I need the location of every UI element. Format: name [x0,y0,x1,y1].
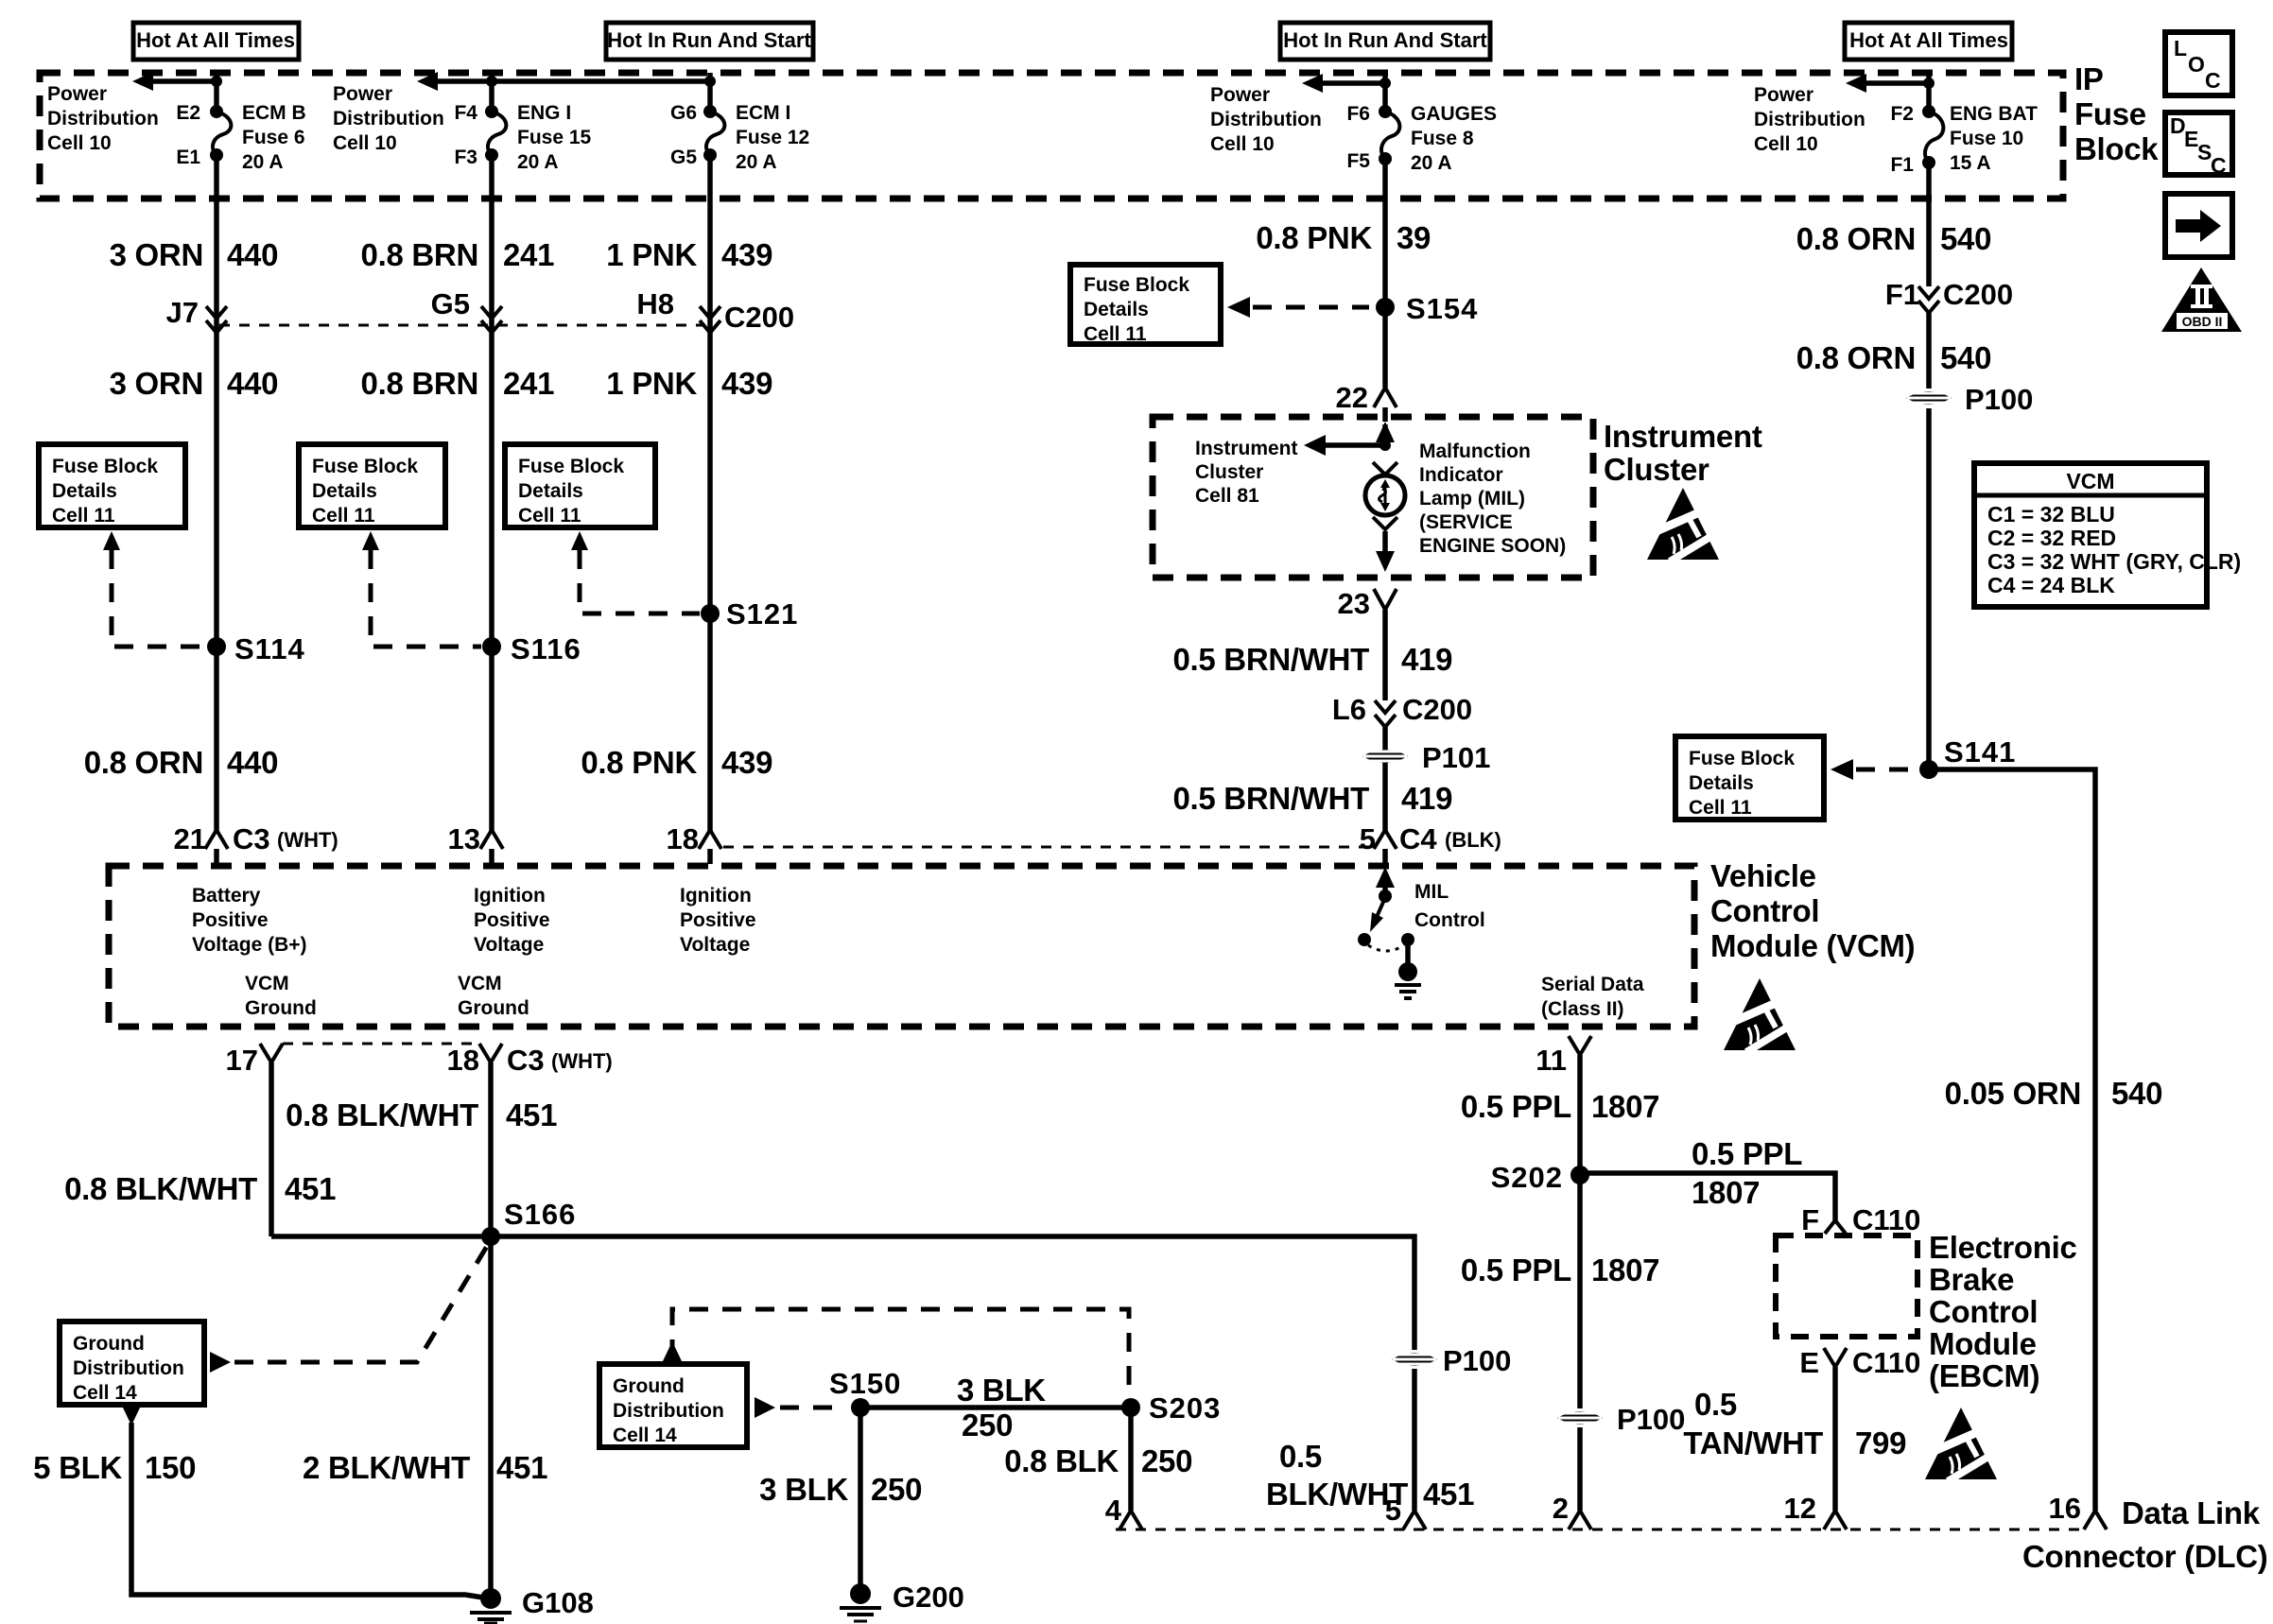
label 0.8 BLK/WHT 451 (wire 18) [286,1097,557,1132]
grommet P101 [1362,741,1490,774]
svg-text:(SERVICE: (SERVICE [1419,511,1513,533]
connector F1 C200 (wire 5) [1885,278,2013,313]
label 0.5 PPL 1807 lower [1461,1253,1659,1287]
svg-text:Indicator: Indicator [1419,464,1503,486]
svg-text:VCM: VCM [458,973,502,994]
svg-text:18: 18 [667,822,699,855]
svg-text:20 A: 20 A [1411,152,1452,174]
svg-text:18: 18 [447,1044,479,1077]
svg-text:ENG BAT: ENG BAT [1950,103,2038,125]
svg-text:15 A: 15 A [1950,152,1991,174]
node S116 [482,632,581,665]
svg-text:0.8 PNK: 0.8 PNK [581,745,697,780]
svg-text:540: 540 [2111,1076,2162,1111]
svg-text:39: 39 [1397,220,1431,255]
pin 13 [448,822,503,855]
label 0.8 ORN 440 mid [84,745,278,780]
svg-text:Ignition: Ignition [680,885,752,907]
svg-text:20 A: 20 A [242,151,284,173]
fuse ENG BAT Fuse 10 symbol [1925,112,1943,162]
reference arrow up from ground box middle [663,1341,682,1361]
svg-text:0.5 PPL: 0.5 PPL [1461,1253,1571,1287]
svg-text:20 A: 20 A [517,151,559,173]
wire: fuse1 top stub [214,73,219,113]
svg-text:2: 2 [1553,1492,1569,1525]
svg-text:Fuse 15: Fuse 15 [517,127,592,148]
reference arrow into box D [1227,297,1250,318]
wire EBCM pin E to pin 12 [1832,1367,1838,1511]
wire W5 segment [1926,163,1932,286]
instrument cluster dashed box [1153,417,1593,578]
svg-text:C4: C4 [1399,822,1437,855]
label 0.8 ORN 540 row2 [1796,340,1991,375]
svg-text:C200: C200 [1402,693,1472,726]
svg-text:P101: P101 [1422,741,1490,774]
svg-text:TAN/WHT: TAN/WHT [1683,1425,1823,1460]
svg-text:S166: S166 [504,1198,576,1231]
svg-text:0.05 ORN: 0.05 ORN [1945,1076,2081,1111]
label 3 ORN 440 row1 [110,237,279,272]
grommet P100 (wire 5) [1906,383,2033,416]
wire stub into VCM [1382,849,1388,865]
svg-text:Distribution: Distribution [73,1357,184,1379]
pin 22 instrument cluster [1336,381,1397,414]
svg-text:VCM: VCM [245,973,289,994]
svg-text:S121: S121 [726,597,798,631]
svg-text:439: 439 [721,237,772,272]
wire S150 to G200 [858,1408,863,1586]
svg-text:Ground: Ground [245,997,317,1019]
svg-text:3 BLK: 3 BLK [957,1373,1046,1408]
svg-text:S114: S114 [234,632,305,665]
svg-text:451: 451 [506,1097,557,1132]
fuse block details box B [299,444,445,527]
svg-text:0.5: 0.5 [1694,1387,1737,1422]
svg-text:C3 = 32 WHT (GRY, CLR): C3 = 32 WHT (GRY, CLR) [1987,549,2241,574]
pin 12 DLC [1784,1492,1847,1529]
svg-text:(BLK): (BLK) [1445,828,1501,852]
reference arrow down from ground box left [122,1406,141,1425]
label 2 BLK/WHT 451 [303,1450,547,1485]
svg-text:Module: Module [1929,1326,2037,1361]
fuse F_ECMB pins E2/E1 [176,102,223,168]
wire from S141 to right column [1929,769,2095,1511]
instrument cluster inner reference text [1195,438,1298,507]
dashed reference to S141 [1856,768,1915,772]
svg-text:Details: Details [1689,772,1754,794]
svg-text:G5: G5 [670,147,697,168]
svg-text:S141: S141 [1944,735,2016,769]
svg-text:Connector (DLC): Connector (DLC) [2022,1539,2267,1574]
svg-text:3 ORN: 3 ORN [110,366,203,401]
svg-text:Cell 10: Cell 10 [1754,133,1818,155]
svg-text:Distribution: Distribution [333,108,444,130]
wire W4 below instrument cluster [1382,610,1388,700]
power distribution text 5 [1754,84,1865,155]
pin 16 DLC [2049,1492,2107,1529]
svg-text:250: 250 [962,1408,1013,1443]
reference arrow up to box A [103,531,120,550]
wire serial data to pin 2 [1577,1427,1583,1511]
svg-text:451: 451 [496,1450,547,1485]
label 0.8 PNK 39 [1256,220,1431,255]
svg-text:P100: P100 [1443,1344,1511,1377]
svg-text:(WHT): (WHT) [277,828,338,852]
svg-text:VCM: VCM [2066,469,2114,493]
svg-text:Hot In Run And Start: Hot In Run And Start [1283,28,1487,52]
svg-text:F1: F1 [1885,278,1919,311]
svg-text:3 ORN: 3 ORN [110,237,203,272]
svg-text:Fuse Block: Fuse Block [518,456,624,477]
ground distribution box middle [599,1364,747,1447]
VCM dashed box [109,866,1694,1027]
svg-text:E2: E2 [176,102,200,124]
fuse GAUGES labels [1411,103,1497,174]
svg-text:Fuse Block: Fuse Block [52,456,158,477]
svg-text:440: 440 [227,366,278,401]
svg-text:451: 451 [285,1171,336,1206]
svg-text:Ground: Ground [458,997,529,1019]
svg-text:C110: C110 [1852,1203,1920,1236]
svg-text:ECM I: ECM I [736,102,790,124]
node S150 [829,1367,901,1417]
label 0.8 BLK 250 [1004,1443,1192,1478]
svg-text:Voltage: Voltage [474,934,544,956]
svg-text:C: C [2205,68,2221,93]
svg-text:(Class II): (Class II) [1541,998,1624,1020]
wire W3 upper segment [707,155,713,832]
svg-text:C110: C110 [1852,1346,1920,1379]
connector C200 row: G5 [431,287,502,333]
svg-text:C200: C200 [724,301,794,334]
dashed reference to S114 [112,550,206,647]
fuse block details box E [1675,736,1824,820]
svg-text:1 PNK: 1 PNK [606,366,697,401]
connector L6 C200 [1332,693,1472,727]
connector C200 dashed line [219,324,705,327]
svg-text:241: 241 [503,366,554,401]
svg-text:Cluster: Cluster [1604,452,1709,487]
wire W2 upper segment [489,155,495,832]
svg-text:C: C [2211,153,2227,178]
svg-text:Cell 11: Cell 11 [52,505,115,527]
svg-text:Distribution: Distribution [1210,109,1322,130]
svg-text:Ground: Ground [613,1375,685,1397]
reference arrow up to box B [362,531,379,550]
svg-text:Cell 14: Cell 14 [73,1382,137,1404]
OBD II triangle symbol [2161,268,2242,332]
pin 18 C3 (WHT) VCM [447,1044,613,1077]
grommet P100 (serial data wire) [1557,1403,1685,1436]
svg-text:MIL: MIL [1414,881,1449,903]
power distribution text 4 [1210,84,1322,155]
svg-text:F: F [1801,1203,1819,1236]
svg-text:Details: Details [52,480,117,502]
svg-text:F1: F1 [1890,154,1914,176]
dashed reference to S121 [580,550,700,613]
wire S203 to pin 4 [1128,1408,1134,1511]
fuse GAUGES Fuse 8 symbol [1381,112,1399,158]
svg-text:0.5 BRN/WHT: 0.5 BRN/WHT [1172,642,1369,677]
node S203 [1121,1391,1221,1425]
svg-text:C1 = 32 BLU: C1 = 32 BLU [1987,502,2115,527]
DESC legend box [2165,112,2232,178]
MIL lamp bottom terminal chevron [1373,517,1397,529]
forward arrow legend box [2165,194,2232,257]
svg-text:20 A: 20 A [736,151,777,173]
label 0.5 BRN/WHT 419 upper [1172,642,1452,677]
label 5 BLK 150 [33,1450,196,1485]
label 0.8 BRN 241 row1 [361,237,555,272]
svg-text:Instrument: Instrument [1604,419,1762,454]
pin 5 DLC [1385,1494,1426,1529]
wire: fuse4 top stub [1382,73,1388,113]
node S202 [1491,1161,1589,1194]
svg-text:Cell 10: Cell 10 [1210,133,1275,155]
svg-text:S202: S202 [1491,1161,1563,1194]
fuse block details box C [505,444,655,527]
svg-text:Voltage: Voltage [680,934,750,956]
svg-text:Battery: Battery [192,885,261,907]
svg-text:Fuse Block: Fuse Block [312,456,418,477]
pin 5 C4 (BLK) [1360,822,1501,855]
power distribution text 1 [47,83,159,154]
power distribution arrow 5 [1846,74,1935,93]
label 1 PNK 439 row1 [606,237,772,272]
svg-text:Hot In Run And Start: Hot In Run And Start [607,28,811,52]
MIL lamp top terminal chevron [1373,462,1397,475]
ground G200 [840,1581,964,1621]
svg-text:G200: G200 [893,1581,964,1614]
wire 17 down to S166 line [269,1063,274,1236]
wire: fuse5 top stub [1926,73,1932,113]
pin 21 C3 (WHT) [174,822,338,855]
dashed reference to S166 [234,1243,489,1362]
svg-text:E1: E1 [176,147,200,168]
svg-text:Block: Block [2074,131,2159,166]
label 0.8 ORN 540 row1 [1796,221,1991,256]
reference arrow up to box C [571,531,588,550]
pin 11 VCM serial data [1536,1036,1591,1077]
svg-text:1807: 1807 [1692,1175,1760,1210]
svg-text:(WHT): (WHT) [551,1049,613,1073]
Instrument Cluster title [1604,419,1762,487]
svg-text:ECM B: ECM B [242,102,306,124]
dashed reference to S116 [371,550,481,647]
svg-text:Fuse 12: Fuse 12 [736,127,809,148]
Vehicle Control Module title [1710,858,1915,963]
svg-text:250: 250 [1141,1443,1192,1478]
wire serial data pin 11 to S202 [1577,1055,1583,1408]
svg-text:540: 540 [1940,340,1991,375]
wire 451 to pin 5 [1412,1369,1417,1511]
IP fuse block dashed box [40,73,2063,199]
label 0.8 PNK 439 mid [581,745,772,780]
svg-text:16: 16 [2049,1492,2081,1525]
reference arrow from ground box left [210,1352,231,1373]
svg-text:Cell 10: Cell 10 [47,132,112,154]
svg-text:540: 540 [1940,221,1991,256]
svg-text:Lamp (MIL): Lamp (MIL) [1419,488,1525,510]
svg-text:F5: F5 [1346,150,1370,172]
svg-text:Power: Power [1754,84,1813,106]
svg-text:Fuse 10: Fuse 10 [1950,128,2023,149]
malfunction indicator lamp text [1419,441,1566,557]
power distribution arrow 2 (shared wires 2-3) [417,72,716,91]
node S154 [1376,292,1478,325]
label 0.5 PPL 1807 upper [1461,1089,1659,1124]
ESD symbol VCM [1720,978,1799,1052]
svg-text:Details: Details [518,480,583,502]
pin 17 VCM [226,1044,283,1077]
connector C200 row: H8 [636,287,720,333]
label 1 PNK 439 row2 [606,366,772,401]
fuse F_GAUGES pins F6/F5 [1346,103,1392,172]
svg-text:ENG I: ENG I [517,102,571,124]
svg-text:L: L [2174,36,2187,60]
wire W5 segment 2 [1926,313,1932,389]
svg-text:Cell 11: Cell 11 [312,505,375,527]
fuse block details box D [1070,265,1221,345]
svg-text:Power: Power [333,83,392,105]
svg-text:F6: F6 [1346,103,1370,125]
svg-text:S150: S150 [829,1367,901,1400]
svg-text:Distribution: Distribution [47,108,159,130]
svg-text:3 BLK: 3 BLK [759,1472,848,1507]
svg-text:Voltage (B+): Voltage (B+) [192,934,307,956]
svg-text:C3: C3 [507,1044,545,1077]
svg-text:22: 22 [1336,381,1368,414]
fuse F_ENGBAT pins F2/F1 [1890,103,1935,176]
pin 23 instrument cluster [1338,587,1397,620]
svg-text:Fuse: Fuse [2074,96,2146,131]
label 3 BLK 250 (horizontal wire) [957,1373,1046,1443]
fuse block details box A [39,444,185,527]
svg-text:Positive: Positive [680,909,756,931]
svg-text:F2: F2 [1890,103,1914,125]
svg-text:Control: Control [1710,893,1819,928]
power distribution arrow 4 [1302,74,1391,93]
svg-text:Cluster: Cluster [1195,461,1263,483]
svg-text:0.5 PPL: 0.5 PPL [1692,1136,1802,1171]
header box: Hot In Run And Start (left) [606,23,813,60]
svg-text:Instrument: Instrument [1195,438,1298,459]
EBCM dashed box [1776,1235,1917,1337]
VCM serial data text [1541,974,1644,1020]
MIL control arrow up [1376,867,1395,903]
IP Fuse Block label [2074,61,2159,166]
svg-text:Malfunction: Malfunction [1419,441,1531,462]
svg-text:0.8 BLK/WHT: 0.8 BLK/WHT [286,1097,478,1132]
svg-text:0.8 BRN: 0.8 BRN [361,237,478,272]
label 0.5 PPL 1807 branch [1692,1136,1802,1210]
svg-text:21: 21 [174,822,206,855]
label 3 ORN 440 row2 [110,366,279,401]
svg-text:13: 13 [448,822,480,855]
MIL lamp feed arrow up [1376,422,1395,445]
svg-text:Power: Power [47,83,107,105]
ESD symbol EBCM [1921,1408,2001,1481]
svg-text:5: 5 [1360,822,1376,855]
dashed reference to S150 [780,1406,846,1410]
svg-text:439: 439 [721,745,772,780]
wire 18 down to G108 [488,1063,494,1594]
svg-text:439: 439 [721,366,772,401]
svg-text:0.8 BLK/WHT: 0.8 BLK/WHT [64,1171,257,1206]
arrow to instrument cluster reference [1304,435,1391,456]
MIL lamp output arrow down [1376,531,1395,572]
svg-text:G5: G5 [431,287,470,320]
svg-text:G108: G108 [522,1586,594,1619]
svg-text:Hot At All Times: Hot At All Times [1849,28,2008,52]
svg-text:0.8 ORN: 0.8 ORN [84,745,203,780]
svg-text:241: 241 [503,237,554,272]
pin 2 DLC [1553,1492,1591,1529]
svg-text:1807: 1807 [1591,1089,1659,1124]
fuse ECM B labels [242,102,306,173]
header box: Hot In Run And Start (right) [1280,23,1490,60]
VCM legend box [1974,463,2241,607]
svg-text:12: 12 [1784,1492,1816,1525]
wire W4 to P101 [1382,727,1388,832]
svg-text:0.8 ORN: 0.8 ORN [1796,221,1916,256]
dashed reference path to S203 [672,1309,1129,1401]
svg-text:440: 440 [227,237,278,272]
svg-text:Control: Control [1929,1294,2038,1329]
node S141 [1919,735,2016,779]
svg-text:1807: 1807 [1591,1253,1659,1287]
svg-text:P100: P100 [1965,383,2033,416]
ESD symbol instrument cluster [1643,488,1723,561]
svg-text:H8: H8 [636,287,674,320]
dashed reference to S154 [1253,305,1369,310]
node S166 [481,1198,576,1246]
svg-text:Ground: Ground [73,1333,145,1355]
svg-text:Distribution: Distribution [1754,109,1865,130]
svg-text:Data Link: Data Link [2122,1495,2261,1530]
svg-text:11: 11 [1536,1044,1567,1077]
wire S202 to EBCM pin F [1580,1173,1835,1220]
wire W5 segment 3 [1926,408,1932,769]
svg-text:0.5 BRN/WHT: 0.5 BRN/WHT [1172,781,1369,816]
svg-text:Ignition: Ignition [474,885,546,907]
DLC connector face dashed line [1116,1529,2084,1531]
node S121 [701,597,798,631]
svg-text:O: O [2188,52,2205,77]
svg-text:4: 4 [1105,1494,1122,1527]
svg-text:Cell 11: Cell 11 [1084,323,1147,345]
svg-text:S154: S154 [1406,292,1478,325]
svg-text:440: 440 [227,745,278,780]
malfunction indicator lamp MIL [1365,475,1405,515]
fuse F_ENGI pins F4/F3 [454,102,498,168]
label 0.5 BRN/WHT 419 lower [1172,781,1452,816]
svg-text:0.5: 0.5 [1279,1439,1322,1474]
svg-text:Fuse Block: Fuse Block [1084,274,1189,296]
wire: fuse2 stub [489,81,495,113]
svg-text:5 BLK: 5 BLK [33,1450,122,1485]
svg-text:ENGINE SOON): ENGINE SOON) [1419,535,1566,557]
svg-text:S116: S116 [511,632,581,665]
svg-text:Cell 10: Cell 10 [333,132,397,154]
svg-text:250: 250 [871,1472,922,1507]
svg-text:150: 150 [145,1450,196,1485]
grommet P100 (451 wire) [1392,1344,1511,1377]
fuse ECM I labels [736,102,809,173]
svg-text:2 BLK/WHT: 2 BLK/WHT [303,1450,470,1485]
svg-text:S203: S203 [1149,1391,1221,1425]
reference arrow into box E [1831,759,1853,780]
